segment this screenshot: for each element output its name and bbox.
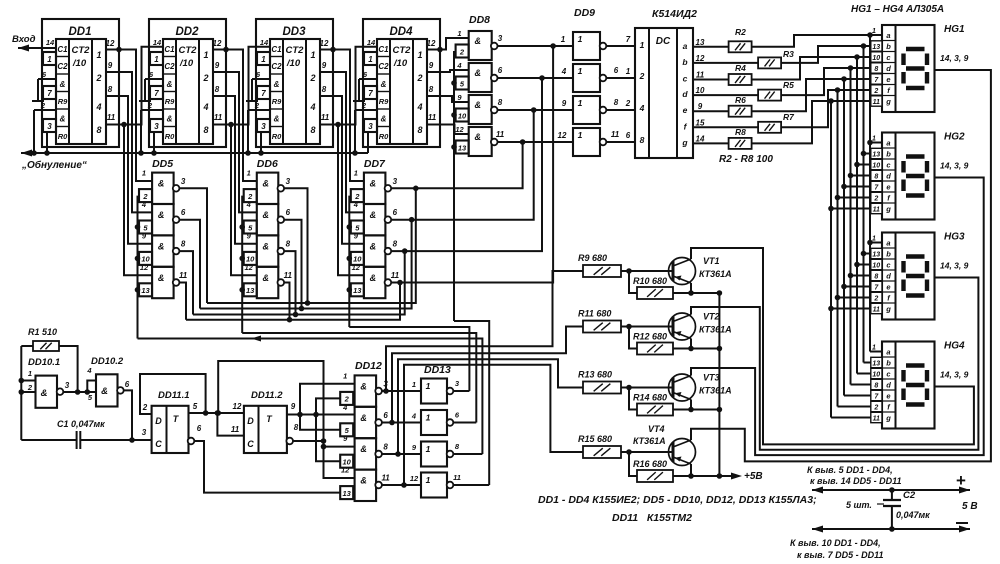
svg-text:2: 2 xyxy=(873,295,878,302)
svg-text:8: 8 xyxy=(614,98,619,107)
svg-text:&: & xyxy=(381,80,387,89)
wire R16 between base and rail xyxy=(629,452,722,479)
flip-flop DD11.1 pin labels 2,3,5,6 xyxy=(142,402,202,437)
svg-text:13: 13 xyxy=(353,286,362,295)
wire BCD bus bit 1 horizontal up into DD7 output 1 xyxy=(207,186,419,304)
counter DD3 К155ИЕ2 outer feedback frame xyxy=(256,19,333,147)
svg-text:5: 5 xyxy=(193,402,198,411)
svg-text:1: 1 xyxy=(426,413,431,423)
svg-text:к выв. 14 DD5 - DD11: к выв. 14 DD5 - DD11 xyxy=(810,476,901,486)
counter DD2 output pin labels 12,9,8,11 xyxy=(213,39,223,122)
wire DD3 out11 to DD7 gate4 input and cascade to DD4 pin14 xyxy=(320,47,377,276)
svg-text:8: 8 xyxy=(429,85,434,94)
svg-text:C1: C1 xyxy=(378,45,389,54)
svg-text:3: 3 xyxy=(383,380,388,389)
svg-text:7: 7 xyxy=(261,89,266,98)
svg-text:R4: R4 xyxy=(735,63,746,73)
svg-text:R7: R7 xyxy=(783,112,795,122)
wire DD1 out8 down to DD5 gate3 input xyxy=(106,96,152,244)
wire VT1 emitter down to resistor line xyxy=(688,283,694,296)
svg-text:8: 8 xyxy=(383,443,388,452)
svg-text:11: 11 xyxy=(381,474,390,483)
inverter block DD9 input pin labels 1,4,9,12 xyxy=(558,35,567,140)
wire segment bus column d xyxy=(848,65,882,384)
svg-text:C2: C2 xyxy=(378,62,389,71)
svg-text:8: 8 xyxy=(393,240,398,249)
svg-text:9: 9 xyxy=(215,61,220,70)
svg-text:CT2: CT2 xyxy=(286,45,305,56)
svg-text:6: 6 xyxy=(383,411,388,420)
wire scan decode mesh vertical A xyxy=(300,384,355,430)
svg-text:c: c xyxy=(683,74,688,84)
svg-text:13: 13 xyxy=(458,143,467,152)
resistor R10 680 xyxy=(633,276,673,299)
inverter DD13.3 xyxy=(412,442,460,467)
flip-flop DD11.1 body xyxy=(152,406,195,453)
svg-text:11: 11 xyxy=(179,271,188,280)
counter DD1 pin number labels 14,6,2 xyxy=(40,38,55,110)
svg-text:10: 10 xyxy=(696,86,705,95)
svg-text:4: 4 xyxy=(86,366,92,375)
svg-text:&: & xyxy=(474,68,481,78)
svg-text:15: 15 xyxy=(696,118,705,127)
svg-text:C2: C2 xyxy=(903,490,916,501)
svg-text:4: 4 xyxy=(353,200,359,209)
wire BCD bus bit 2 horizontal up into DD7 output 2 xyxy=(200,217,414,309)
wire DD9 output 4 to decoder input xyxy=(606,141,635,143)
svg-text:+: + xyxy=(956,471,966,490)
label VT2 КТ361А xyxy=(699,312,732,335)
label Обнуление xyxy=(21,159,87,171)
svg-text:1: 1 xyxy=(426,381,431,391)
svg-text:HG4: HG4 xyxy=(944,341,965,352)
svg-text:1: 1 xyxy=(457,29,461,38)
svg-text:&: & xyxy=(360,381,367,391)
display HG2 АЛ305А body xyxy=(882,133,935,220)
gate block DD12 label xyxy=(355,360,382,372)
svg-text:DD3: DD3 xyxy=(282,26,306,38)
label minus xyxy=(956,522,968,524)
counter DD4 output pin labels 12,9,8,11 xyxy=(427,39,437,122)
svg-text:9: 9 xyxy=(108,61,113,70)
svg-text:C1: C1 xyxy=(271,45,282,54)
gate block DD8 output pin labels xyxy=(496,34,505,139)
svg-text:R9: R9 xyxy=(379,97,389,106)
wire DD5 output 3 down to BCD bus bit 3 xyxy=(179,251,193,314)
svg-text:R9 680: R9 680 xyxy=(578,253,607,263)
counter DD3 pins 6,7 tie wire xyxy=(246,79,270,101)
svg-text:C1: C1 xyxy=(57,45,68,54)
svg-text:12: 12 xyxy=(233,402,242,411)
svg-text:R16 680: R16 680 xyxy=(633,459,667,469)
wire DD9 output 3 to decoder input xyxy=(606,109,635,111)
svg-text:b: b xyxy=(682,57,687,67)
wire DD2 out12 down to DD6 gate1 input xyxy=(213,50,257,182)
label 5 В xyxy=(962,501,978,512)
wire oscillator left branch xyxy=(19,346,36,440)
wire DD4 out11 to DD8 gate4 input xyxy=(427,125,469,135)
display HG3 pin number stub boxes xyxy=(871,236,882,314)
wire HG3 common to VT2 collector xyxy=(691,278,978,450)
svg-text:4: 4 xyxy=(639,103,645,113)
svg-text:13: 13 xyxy=(872,151,880,158)
svg-text:HG3: HG3 xyxy=(944,232,965,243)
svg-text:C1: C1 xyxy=(164,45,175,54)
gate block DD5 label xyxy=(152,158,173,170)
svg-text:КТ361А: КТ361А xyxy=(699,269,732,279)
svg-text:g: g xyxy=(885,97,891,106)
svg-text:10: 10 xyxy=(872,371,880,378)
gate block DD6 four NAND gates xyxy=(257,173,284,299)
svg-text:10: 10 xyxy=(458,111,467,120)
wire DD8 output 2 to DD9 input 2 xyxy=(497,77,573,79)
svg-text:8: 8 xyxy=(874,382,878,389)
svg-text:11: 11 xyxy=(231,425,240,434)
svg-text:a: a xyxy=(683,41,688,51)
wire DD11.1 output 6 down to DD12 gate4 second input xyxy=(194,441,340,493)
svg-text:R0: R0 xyxy=(272,132,282,141)
svg-text:13: 13 xyxy=(872,360,880,367)
svg-text:D: D xyxy=(155,416,162,426)
display HG4 common pins label 14,3,9 xyxy=(940,370,969,380)
counter DD1 output pin labels 12,9,8,11 xyxy=(106,39,116,122)
svg-text:&: & xyxy=(60,115,66,124)
svg-text:R0: R0 xyxy=(58,132,68,141)
svg-text:2: 2 xyxy=(40,101,46,110)
svg-text:К выв. 5 DD1 - DD4,: К выв. 5 DD1 - DD4, xyxy=(807,465,893,475)
wire R8 to segment bus g xyxy=(752,101,882,143)
svg-text:1: 1 xyxy=(96,50,101,60)
svg-text:1: 1 xyxy=(578,130,583,140)
display HG3 seven-segment digit xyxy=(904,257,928,296)
wire DD2 out9 down to DD6 gate2 input xyxy=(213,72,257,212)
wire DD6 output 1 down to BCD bus bit 1 xyxy=(284,188,311,306)
svg-text:13: 13 xyxy=(246,286,255,295)
svg-text:b: b xyxy=(886,42,891,51)
wire DD8 output 4 to DD9 input 4 xyxy=(497,141,573,143)
svg-text:2: 2 xyxy=(873,195,878,202)
svg-text:3: 3 xyxy=(368,122,373,131)
svg-text:10: 10 xyxy=(872,55,880,62)
svg-text:C: C xyxy=(155,439,162,449)
counter DD2 pin stub boxes 1,7,3 xyxy=(150,52,163,132)
svg-text:4: 4 xyxy=(561,67,567,76)
svg-text:&: & xyxy=(381,115,387,124)
wire segment bus column b xyxy=(861,43,882,362)
svg-text:CT2: CT2 xyxy=(393,45,412,56)
gate block DD12 input pin labels xyxy=(341,371,352,498)
wire DD3 out9 down to DD7 gate2 input xyxy=(320,72,364,212)
transistor VT4 КТ361А xyxy=(669,439,696,466)
wire segment bus column a xyxy=(867,32,882,351)
label VT4 КТ361А xyxy=(633,424,666,446)
svg-text:11: 11 xyxy=(428,113,437,122)
svg-text:1: 1 xyxy=(578,66,583,76)
resistor R2 100 xyxy=(729,27,752,52)
wire VT2 emitter down to resistor line xyxy=(688,339,694,352)
svg-text:1: 1 xyxy=(872,236,876,243)
svg-text:6: 6 xyxy=(125,380,130,389)
svg-text:4: 4 xyxy=(411,412,417,421)
svg-text:R8: R8 xyxy=(735,127,746,137)
wire DD12 output 3 to DD13 input 3 xyxy=(382,453,421,455)
svg-text:a: a xyxy=(886,239,890,248)
inverter DD13.2 xyxy=(411,410,460,435)
wire VT3 emitter down to resistor line xyxy=(688,400,694,413)
svg-text:C2: C2 xyxy=(271,62,282,71)
wire R11 to VT2 base xyxy=(621,324,673,330)
display HG3 АЛ305А body xyxy=(882,233,935,320)
svg-text:3: 3 xyxy=(393,177,398,186)
wire scan line DD8 down to DD13 output 4 xyxy=(454,321,489,485)
wire DD11.1 feedback loop to D xyxy=(140,374,208,416)
svg-text:&: & xyxy=(263,273,270,283)
display HG1 seven-segment digit xyxy=(904,49,928,88)
label chip types line 1 xyxy=(538,494,817,506)
wire HG1 common to VT4 collector xyxy=(691,70,991,461)
svg-text:14, 3, 9: 14, 3, 9 xyxy=(940,53,969,63)
resistor R12 680 xyxy=(633,332,673,355)
counter DD1 out12 feedback junction xyxy=(106,47,122,53)
svg-text:&: & xyxy=(158,179,165,189)
svg-text:1: 1 xyxy=(247,169,251,178)
label chip types line 2 xyxy=(612,512,692,524)
svg-text:R10 680: R10 680 xyxy=(633,276,667,286)
svg-text:HG1: HG1 xyxy=(944,24,965,35)
svg-text:6: 6 xyxy=(626,131,631,140)
wire +5V emitter rail xyxy=(719,293,742,480)
wire decoder output d to R5 xyxy=(693,94,758,96)
svg-text:КТ361А: КТ361А xyxy=(633,436,666,446)
svg-text:DD5: DD5 xyxy=(152,158,173,170)
decoder input pin labels 7,1,2,6 xyxy=(625,35,631,140)
counter DD3 pin number labels 14,6,2 xyxy=(254,38,269,110)
svg-text:1: 1 xyxy=(578,98,583,108)
svg-text:d: d xyxy=(886,381,891,390)
wire DD10.1 output to DD10.2 inputs xyxy=(63,381,96,395)
svg-text:8: 8 xyxy=(874,273,878,280)
svg-text:DD4: DD4 xyxy=(389,26,413,38)
wire R3 to segment bus b xyxy=(781,46,882,63)
wire decoder output e to R6 xyxy=(693,110,729,112)
svg-text:R13 680: R13 680 xyxy=(578,370,612,380)
display HG2 label xyxy=(944,132,965,143)
svg-text:11: 11 xyxy=(611,130,620,139)
wire DD11.2 C input from Q1 xyxy=(217,413,244,436)
svg-text:11: 11 xyxy=(696,71,705,80)
svg-text:5 шт.: 5 шт. xyxy=(846,500,872,510)
svg-text:2: 2 xyxy=(309,73,315,83)
svg-text:&: & xyxy=(360,476,367,486)
wire DD4 out9 to DD8 gate2 input xyxy=(427,70,469,72)
flip-flop DD11.2 label xyxy=(251,390,283,401)
svg-text:R3: R3 xyxy=(783,49,794,59)
svg-text:11: 11 xyxy=(284,271,293,280)
svg-text:D: D xyxy=(247,416,254,426)
svg-text:&: & xyxy=(158,273,165,283)
svg-text:11: 11 xyxy=(391,271,400,280)
counter DD1 body xyxy=(56,39,106,144)
svg-text:1: 1 xyxy=(368,55,373,64)
svg-text:/10: /10 xyxy=(179,58,194,69)
svg-text:DD10.1: DD10.1 xyxy=(28,357,60,368)
svg-text:Вход: Вход xyxy=(12,34,36,45)
svg-text:14: 14 xyxy=(696,134,705,143)
gate block DD5 four NAND gates xyxy=(152,173,179,299)
svg-text:1: 1 xyxy=(640,40,645,50)
svg-text:2: 2 xyxy=(416,73,422,83)
display HG4 pin number stub boxes xyxy=(871,345,882,423)
counter DD3 body xyxy=(270,39,320,144)
wire HG2 common to VT3 collector xyxy=(691,178,984,456)
svg-text:VT2: VT2 xyxy=(703,312,720,322)
svg-text:R14 680: R14 680 xyxy=(633,393,667,403)
flip-flop DD11.1 label xyxy=(158,390,190,401)
wire DD11.2 output 8 to DD12 gate3 and gate4 inputs xyxy=(293,438,355,478)
wire decoder output a to R2 xyxy=(693,46,729,48)
svg-text:g: g xyxy=(885,305,891,314)
counter DD3 output pin labels 12,9,8,11 xyxy=(320,39,330,122)
svg-text:e: e xyxy=(683,105,688,115)
svg-text:12: 12 xyxy=(213,39,222,48)
wire DD2 out8 down to DD6 gate3 input xyxy=(213,96,257,244)
capacitor C2 0,047мк xyxy=(883,490,930,532)
wire segment bus column e xyxy=(841,76,882,395)
svg-text:&: & xyxy=(474,132,481,142)
flip-flop DD11.2 body xyxy=(244,406,293,453)
wire DD9 output 2 to decoder input xyxy=(606,77,635,79)
wire DD3 out8 down to DD7 gate3 input xyxy=(320,96,364,244)
svg-text:8: 8 xyxy=(96,125,101,135)
svg-text:C2: C2 xyxy=(57,62,68,71)
svg-text:2: 2 xyxy=(639,71,645,81)
svg-text:2: 2 xyxy=(202,73,208,83)
wire DD1 out12 down to DD5 gate1 input xyxy=(106,50,152,182)
counter DD4 pins 6,7 tie wire xyxy=(353,79,377,101)
transistor VT3 КТ361А xyxy=(669,374,696,401)
svg-text:к выв. 7 DD5 - DD11: к выв. 7 DD5 - DD11 xyxy=(797,550,883,559)
wire R14 between base and rail xyxy=(629,388,722,413)
svg-text:7: 7 xyxy=(47,89,52,98)
wire DD7 output 1 right and riser up to DD9 row xyxy=(391,139,525,188)
svg-text:1: 1 xyxy=(28,369,32,378)
svg-text:8: 8 xyxy=(640,135,645,145)
gate block DD6 output pin labels xyxy=(284,177,293,280)
gate block DD7 four NAND gates xyxy=(364,173,391,299)
wire DD11.2 feedback loop xyxy=(218,361,323,441)
svg-text:8: 8 xyxy=(215,85,220,94)
gate block DD7 label xyxy=(364,158,386,170)
wire DD12 output 1 to DD13 input 1 xyxy=(382,390,421,392)
svg-text:&: & xyxy=(158,210,165,220)
wire R4 to segment bus c xyxy=(752,57,882,80)
wire DD12 output 2 to DD13 input 2 xyxy=(382,422,421,424)
counter DD4 reset pins 2,3 wires to reset bus xyxy=(352,110,377,156)
display HG4 seven-segment digit xyxy=(904,366,928,405)
label VT3 КТ361А xyxy=(699,373,732,396)
svg-text:R0: R0 xyxy=(165,132,175,141)
wire R15 to VT4 base xyxy=(621,449,673,455)
display HG2 common pins label 14,3,9 xyxy=(940,161,969,171)
svg-text:8: 8 xyxy=(108,85,113,94)
wire DD6 output 3 down to BCD bus bit 3 xyxy=(284,251,299,317)
svg-text:C2: C2 xyxy=(164,62,175,71)
svg-text:R11 680: R11 680 xyxy=(578,309,611,319)
svg-text:КТ361А: КТ361А xyxy=(699,386,732,396)
gate block DD5 output pin labels xyxy=(179,177,188,280)
wire DD12 output 2 to R11 via staircase xyxy=(389,327,583,426)
wire scan line DD7 down to DD13 output 1 xyxy=(349,327,469,391)
svg-text:8: 8 xyxy=(322,85,327,94)
svg-text:1: 1 xyxy=(578,34,583,44)
wire DD1 out9 down to DD5 gate2 input xyxy=(106,72,152,212)
transistor VT1 КТ361А xyxy=(669,258,696,285)
svg-text:„Обнуление“: „Обнуление“ xyxy=(21,159,87,171)
svg-text:&: & xyxy=(360,444,367,454)
counter DD3 pin stub boxes 1,7,3 xyxy=(257,52,270,132)
svg-text:14: 14 xyxy=(46,38,55,47)
node input Вход with arrow xyxy=(12,34,56,52)
wire R13 to VT3 base xyxy=(621,385,673,391)
wire R1 feedback xyxy=(59,346,78,392)
wire decoder output g to R8 xyxy=(693,142,729,144)
wire R9 to VT1 base xyxy=(621,268,673,274)
resistor R14 680 xyxy=(633,393,673,416)
svg-text:R12 680: R12 680 xyxy=(633,332,667,342)
svg-text:6: 6 xyxy=(197,424,202,433)
svg-text:11: 11 xyxy=(873,415,880,422)
wire DD8 output 1 to DD9 input 1 xyxy=(497,45,573,47)
svg-text:g: g xyxy=(885,414,891,423)
resistor R7 100 xyxy=(758,112,795,133)
resistor R9 680 xyxy=(578,253,621,277)
svg-text:&: & xyxy=(370,241,377,251)
svg-text:3: 3 xyxy=(286,177,291,186)
svg-text:2: 2 xyxy=(142,403,148,412)
counter DD1 pins 6,7 tie wire xyxy=(32,79,56,101)
wire DD13 output 3 to scan riser xyxy=(453,453,483,455)
svg-text:DD1 - DD4 К155ИЕ2; DD5 -: DD1 - DD4 К155ИЕ2; DD5 - DD10, DD12, DD1… xyxy=(538,494,817,506)
svg-text:&: & xyxy=(274,115,280,124)
svg-text:HG1 – HG4 АЛ305А: HG1 – HG4 АЛ305А xyxy=(851,4,944,15)
wire segment bus column g xyxy=(828,98,882,417)
wire DD8 select column down to scan line xyxy=(451,51,457,321)
svg-text:a: a xyxy=(886,348,890,357)
svg-text:DD6: DD6 xyxy=(257,158,278,170)
svg-text:d: d xyxy=(886,172,891,181)
inverter block DD9 four inverters xyxy=(573,32,606,156)
wire scan decode mesh vertical B xyxy=(316,398,340,461)
svg-text:7: 7 xyxy=(626,35,631,44)
resistor R11 680 xyxy=(578,309,621,333)
wire HG4 common to VT1 collector xyxy=(691,248,974,444)
svg-text:3: 3 xyxy=(142,428,147,437)
svg-text:6: 6 xyxy=(614,66,619,75)
svg-text:b: b xyxy=(886,150,891,159)
svg-text:1: 1 xyxy=(142,169,146,178)
svg-text:&: & xyxy=(158,241,165,251)
wire DD4 out8 to DD8 gate3 input xyxy=(427,96,469,102)
svg-text:8: 8 xyxy=(286,240,291,249)
inverter block DD9 label xyxy=(574,7,595,19)
gate DD10.1 xyxy=(27,369,70,408)
svg-text:11: 11 xyxy=(873,99,880,106)
transistor VT2 КТ361А xyxy=(669,313,696,340)
label power wiring bottom xyxy=(790,538,883,560)
wire DD12 output 4 to R15 via staircase xyxy=(401,365,583,488)
svg-text:&: & xyxy=(474,100,481,110)
svg-text:1: 1 xyxy=(426,444,431,454)
